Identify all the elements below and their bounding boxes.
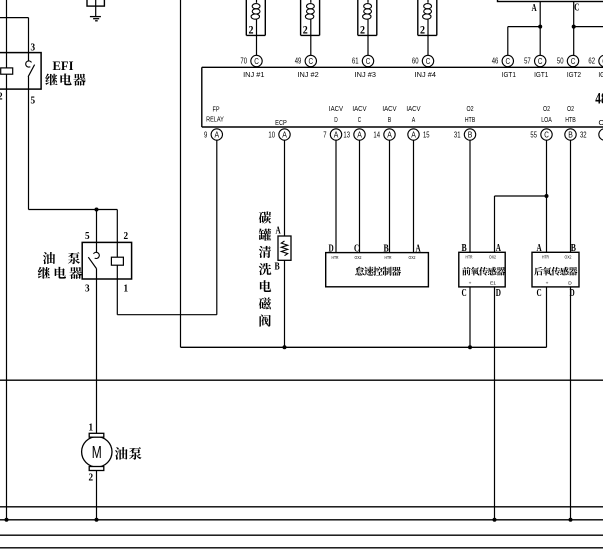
label 怠速控制器 bbox=[355, 267, 401, 276]
wire - purge solenoid B to rail bbox=[284, 260, 286, 347]
terminal C label (front O2) bbox=[462, 288, 467, 299]
svg-text:FP: FP bbox=[212, 105, 219, 114]
wire - to ground bbox=[95, 0, 97, 16]
wire - FP relay pin 5 drop bbox=[96, 210, 98, 243]
svg-text:55: 55 bbox=[530, 130, 537, 140]
svg-text:D: D bbox=[568, 280, 572, 286]
junction - IGT1 branch bbox=[538, 25, 542, 29]
svg-text:1: 1 bbox=[124, 283, 129, 295]
FP relay switch contact bbox=[88, 242, 99, 279]
svg-text:57: 57 bbox=[524, 56, 531, 66]
svg-text:2: 2 bbox=[249, 25, 254, 37]
tiny bottom names (front O2) bbox=[469, 280, 497, 286]
wire - vertical rail x180 bbox=[180, 0, 182, 347]
svg-text:9: 9 bbox=[204, 130, 207, 140]
terminal D label (front O2) bbox=[496, 288, 501, 299]
wire - ECU pin 9 drop bbox=[216, 140, 218, 315]
svg-text:C: C bbox=[254, 57, 259, 66]
svg-text:A: A bbox=[276, 226, 282, 237]
svg-text:IGT2: IGT2 bbox=[598, 70, 603, 79]
ignition coil box (cut at top right) bbox=[498, 0, 603, 2]
svg-text:B: B bbox=[275, 262, 280, 273]
svg-text:E1: E1 bbox=[490, 280, 496, 286]
svg-text:5: 5 bbox=[85, 230, 90, 242]
ECU pin 49 INJ #2 bbox=[295, 55, 317, 66]
label 4 (wire number, cut at edge) bbox=[595, 90, 603, 107]
svg-text:IACV: IACV bbox=[329, 104, 343, 113]
svg-text:70: 70 bbox=[240, 56, 247, 66]
wire - front O2 C to rail bbox=[469, 287, 471, 347]
label 油泵 (FP relay line1) bbox=[43, 252, 80, 264]
svg-text:2: 2 bbox=[0, 91, 3, 103]
junction - O2 LOA branch bbox=[545, 194, 549, 198]
front O2 sensor box bbox=[459, 252, 505, 287]
wire - FP relay pin 1 down bbox=[116, 279, 118, 315]
svg-text:B: B bbox=[571, 243, 576, 254]
label FP RELAY bbox=[206, 105, 224, 124]
svg-text:INJ #4: INJ #4 bbox=[415, 70, 436, 79]
svg-text:IACV: IACV bbox=[352, 104, 366, 113]
fuel pump motor M1 circle bbox=[82, 437, 112, 467]
label INJ #1 bbox=[243, 70, 264, 79]
wire - injector 3 to ECU pin bbox=[367, 19, 369, 55]
EFI relay K1 box bbox=[0, 53, 41, 90]
svg-text:+: + bbox=[469, 281, 472, 286]
svg-text:INJ #1: INJ #1 bbox=[243, 70, 264, 79]
svg-text:32: 32 bbox=[580, 130, 587, 140]
motor pin 2 label bbox=[89, 472, 94, 484]
wire - branch to front O2 A bbox=[495, 196, 547, 252]
junction - feed to ground bus bbox=[5, 518, 9, 522]
label O2 LOA bbox=[541, 104, 552, 124]
terminal B label (rear O2) bbox=[571, 243, 576, 254]
svg-text:48: 48 bbox=[595, 90, 603, 107]
svg-text:IGT1: IGT1 bbox=[534, 70, 548, 79]
svg-text:3: 3 bbox=[85, 283, 90, 295]
svg-text:A: A bbox=[532, 3, 538, 14]
svg-text:HTR: HTR bbox=[466, 255, 473, 261]
svg-text:31: 31 bbox=[454, 130, 461, 140]
svg-text:7: 7 bbox=[323, 130, 326, 140]
svg-text:15: 15 bbox=[423, 130, 430, 140]
label IGT1 bbox=[534, 70, 548, 79]
wire - EFI relay pin 3 drop bbox=[28, 18, 30, 53]
junction - motor on bus bbox=[95, 518, 99, 522]
svg-text:M: M bbox=[92, 442, 102, 462]
svg-text:D: D bbox=[329, 243, 334, 254]
ECU pin at right edge (cut) bbox=[599, 129, 603, 140]
label A (ignition coil terminal) bbox=[532, 3, 538, 14]
svg-text:A: A bbox=[357, 130, 362, 139]
svg-text:EFI: EFI bbox=[53, 59, 74, 73]
svg-text:B: B bbox=[388, 115, 392, 124]
label M bbox=[92, 442, 102, 462]
svg-text:C: C bbox=[538, 57, 543, 66]
injector 1 box (cut at top) bbox=[246, 0, 265, 35]
wire - IGT1 pin 46 drop bbox=[507, 27, 509, 56]
svg-text:B: B bbox=[462, 243, 467, 254]
svg-text:ECP: ECP bbox=[275, 118, 287, 127]
svg-text:RELAY: RELAY bbox=[206, 115, 224, 124]
svg-text:HTB: HTB bbox=[465, 115, 476, 124]
terminal D label (idle controller) bbox=[329, 243, 334, 254]
svg-text:IGT2: IGT2 bbox=[567, 70, 581, 79]
wire - pin 31 to front O2 B bbox=[469, 140, 471, 252]
svg-text:HTR: HTR bbox=[385, 255, 392, 261]
ECU box left edge bbox=[201, 67, 203, 127]
bus line 3 (ground) bbox=[0, 519, 603, 521]
svg-text:A: A bbox=[387, 130, 392, 139]
svg-text:A: A bbox=[334, 130, 339, 139]
label INJ #2 bbox=[297, 70, 318, 79]
svg-text:A: A bbox=[282, 130, 287, 139]
svg-text:62: 62 bbox=[588, 56, 595, 66]
injector 4 pin 2 label bbox=[420, 25, 425, 37]
svg-text:IGT1: IGT1 bbox=[502, 70, 516, 79]
tiny terminal names (rear O2) bbox=[542, 255, 572, 261]
svg-text:C: C bbox=[358, 115, 362, 124]
svg-text:+: + bbox=[546, 281, 549, 286]
terminal D label (rear O2) bbox=[570, 288, 575, 299]
wire - FP relay coil stubs bbox=[116, 242, 118, 279]
svg-text:IACV: IACV bbox=[406, 104, 420, 113]
injector 1 coil bbox=[251, 0, 260, 19]
svg-text:INJ #3: INJ #3 bbox=[355, 70, 376, 79]
label INJ #3 bbox=[355, 70, 376, 79]
svg-text:60: 60 bbox=[412, 56, 419, 66]
label IACV D bbox=[329, 104, 343, 124]
wire - IGT2 C drop bbox=[573, 2, 575, 56]
pin 5 label of EFI relay bbox=[31, 95, 36, 107]
ECU box bottom edge bbox=[202, 126, 603, 128]
svg-text:C: C bbox=[426, 57, 431, 66]
ECU pin 62 IGT2 bbox=[588, 55, 603, 66]
injector 3 coil bbox=[363, 0, 372, 19]
terminal A label (purge solenoid) bbox=[276, 226, 282, 237]
wire - motor to ground bus bbox=[96, 471, 98, 520]
svg-text:49: 49 bbox=[295, 56, 302, 66]
ECU pin 60 INJ #4 bbox=[412, 55, 434, 66]
svg-text:IACV: IACV bbox=[382, 104, 396, 113]
ECU pin 61 INJ #3 bbox=[352, 55, 374, 66]
svg-text:B: B bbox=[384, 243, 389, 254]
label IGT2 bbox=[598, 70, 603, 79]
wire - IGT1 branch horizontal bbox=[508, 26, 540, 28]
svg-text:10: 10 bbox=[268, 130, 275, 140]
label IACV C bbox=[352, 104, 366, 124]
svg-text:O2: O2 bbox=[543, 104, 550, 113]
label 油泵 (fuel pump) bbox=[115, 447, 142, 460]
pin 2 label of FP relay bbox=[124, 230, 129, 242]
ECU pin 31 O2 HTB bbox=[454, 129, 476, 140]
wire - injector 4 to ECU pin bbox=[427, 19, 429, 55]
ECU pin 13 IACV C bbox=[343, 129, 365, 140]
svg-text:2: 2 bbox=[360, 25, 365, 37]
svg-text:C: C bbox=[537, 288, 542, 299]
junction - front O2 C on rail bbox=[468, 345, 472, 349]
junction - purge solenoid on rail bbox=[283, 345, 287, 349]
terminal B label (front O2) bbox=[462, 243, 467, 254]
motor bottom terminal bbox=[89, 467, 104, 471]
ECU box top edge bbox=[202, 66, 603, 68]
svg-text:46: 46 bbox=[492, 56, 499, 66]
ECU pin 9 FP RELAY bbox=[204, 129, 223, 140]
EFI relay switch contact bbox=[26, 53, 35, 90]
wire - horizontal link to ECU pin 9 bbox=[117, 314, 217, 316]
svg-text:C: C bbox=[506, 57, 511, 66]
wire - FP relay pin 2 drop bbox=[116, 210, 118, 243]
wire - rear O2 C to rail end bbox=[546, 287, 548, 347]
purge solenooid coil zigzag bbox=[281, 241, 287, 256]
bus line 2 bbox=[0, 506, 603, 508]
wire - FP relay pin 3 down to motor bbox=[96, 279, 98, 433]
pin 3 label of FP relay bbox=[85, 283, 90, 295]
wire - horizontal rail y347 bbox=[181, 346, 547, 348]
terminal A label (rear O2) bbox=[537, 243, 543, 254]
label C (ignition coil terminal) bbox=[574, 3, 579, 14]
label INJ #4 bbox=[415, 70, 436, 79]
svg-text:1: 1 bbox=[89, 422, 94, 434]
wire - IGT2 branch horizontal bbox=[574, 26, 603, 28]
svg-text:O2: O2 bbox=[466, 104, 473, 113]
pin 5 label of FP relay bbox=[85, 230, 90, 242]
wire - horizontal to fuel pump relay bbox=[29, 209, 118, 211]
junction - rear O2 D on bus bbox=[569, 518, 573, 522]
label IGT1 bbox=[502, 70, 516, 79]
svg-text:C: C bbox=[571, 57, 576, 66]
svg-text:OX2: OX2 bbox=[489, 255, 496, 261]
rear O2 sensor box bbox=[532, 252, 579, 287]
injector 3 box (cut at top) bbox=[358, 0, 377, 35]
injector 4 coil bbox=[423, 0, 432, 19]
svg-text:C: C bbox=[366, 57, 371, 66]
svg-text:OX2: OX2 bbox=[409, 255, 416, 261]
wire - top-left horizontal to EFI relay pin 3 bbox=[0, 17, 29, 19]
junction - front O2 D on bus bbox=[493, 518, 497, 522]
wire - IGT1 A drop bbox=[539, 2, 541, 56]
svg-text:C: C bbox=[354, 243, 359, 254]
purge solenoid body bbox=[278, 236, 291, 260]
label 继电器 (EFI relay) bbox=[45, 73, 85, 85]
svg-text:14: 14 bbox=[373, 130, 380, 140]
fuel pump relay box bbox=[82, 242, 131, 279]
svg-text:O: O bbox=[599, 118, 603, 127]
svg-text:HTB: HTB bbox=[565, 115, 576, 124]
svg-text:13: 13 bbox=[343, 130, 350, 140]
label IACV A bbox=[406, 104, 420, 124]
ECU pin 70 INJ #1 bbox=[240, 55, 262, 66]
svg-text:2: 2 bbox=[420, 25, 425, 37]
svg-text:5: 5 bbox=[31, 95, 36, 107]
terminal C label (idle controller) bbox=[354, 243, 359, 254]
wire - ECU pin 10 to purge solenoid bbox=[284, 140, 286, 236]
svg-text:3: 3 bbox=[31, 42, 36, 54]
svg-text:A: A bbox=[412, 115, 416, 124]
injector 2 coil bbox=[305, 0, 314, 19]
label 前氧传感器 bbox=[462, 267, 505, 276]
terminal B label (purge solenoid) bbox=[275, 262, 280, 273]
wire - pin 55 down bbox=[546, 140, 548, 252]
tiny terminal names (front O2) bbox=[466, 255, 497, 261]
ECU pin 32 O2 HTB bbox=[565, 129, 587, 140]
wire - rear O2 D to bus bbox=[570, 287, 572, 520]
ECU pin 7 IACV D bbox=[323, 129, 341, 140]
wire - battery feed vertical at left bbox=[6, 0, 8, 520]
label O (cut at edge) bbox=[599, 118, 603, 127]
svg-text:D: D bbox=[334, 115, 338, 124]
EFI relay coil bbox=[1, 68, 13, 74]
svg-text:2: 2 bbox=[303, 25, 308, 37]
svg-text:INJ #2: INJ #2 bbox=[297, 70, 318, 79]
svg-text:C: C bbox=[309, 57, 314, 66]
svg-text:HTR: HTR bbox=[332, 255, 339, 261]
pin 1 label of FP relay bbox=[124, 283, 129, 295]
label O2 HTB (rear) bbox=[565, 104, 576, 124]
svg-text:D: D bbox=[496, 288, 501, 299]
svg-text:C: C bbox=[544, 130, 549, 139]
wire - injector 1 to ECU pin bbox=[256, 19, 258, 55]
svg-text:O2: O2 bbox=[567, 104, 574, 113]
svg-text:OX2: OX2 bbox=[355, 255, 362, 261]
svg-text:HTR: HTR bbox=[542, 255, 549, 261]
ECU pin 50 IGT2 bbox=[557, 55, 579, 66]
terminal A label (front O2) bbox=[496, 243, 502, 254]
injector 1 pin 2 label bbox=[249, 25, 254, 37]
motor pin 1 label bbox=[89, 422, 94, 434]
label ECP bbox=[275, 118, 287, 127]
svg-text:C: C bbox=[574, 3, 579, 14]
pin 2 label of EFI relay coil (cut at edge) bbox=[0, 91, 3, 103]
wire - pin 7 to idle controller D bbox=[335, 140, 337, 253]
ECU pin 46 IGT1 bbox=[492, 55, 514, 66]
tiny bottom names (rear O2) bbox=[546, 280, 573, 286]
svg-text:A: A bbox=[416, 243, 422, 254]
ECU pin 14 IACV B bbox=[373, 129, 395, 140]
motor top terminal bbox=[89, 433, 104, 437]
wire - front O2 D to bus bbox=[494, 287, 496, 520]
ground symbol bbox=[90, 17, 101, 21]
label EFI bbox=[53, 59, 74, 73]
component box (cut at top) above ground bbox=[87, 0, 104, 6]
terminal A label (idle controller) bbox=[416, 243, 422, 254]
ECU pin 57 IGT1 bbox=[524, 55, 546, 66]
svg-text:2: 2 bbox=[89, 472, 94, 484]
label IGT2 bbox=[567, 70, 581, 79]
injector 2 pin 2 label bbox=[303, 25, 308, 37]
injector 2 box (cut at top) bbox=[301, 0, 320, 35]
idle controller box bbox=[326, 253, 429, 287]
wire - pin 15 to idle controller A bbox=[413, 140, 415, 253]
svg-text:A: A bbox=[411, 130, 416, 139]
ECU pin 55 O2 LOA bbox=[530, 129, 552, 140]
label 碳罐清洗电磁阀 (vertical) bbox=[259, 211, 272, 326]
ECU pin 10 ECP bbox=[268, 129, 290, 140]
svg-text:61: 61 bbox=[352, 56, 359, 66]
injector 3 pin 2 label bbox=[360, 25, 365, 37]
wire - pin 14 to idle controller B bbox=[389, 140, 391, 253]
bus line 5 bbox=[0, 547, 603, 549]
svg-text:A: A bbox=[215, 130, 220, 139]
svg-text:50: 50 bbox=[557, 56, 564, 66]
pin 3 label of EFI relay bbox=[31, 42, 36, 54]
label 继电器 (FP relay line2) bbox=[38, 267, 82, 279]
junction - branch to FP relay pin 5 bbox=[95, 208, 99, 212]
label IACV B bbox=[382, 104, 396, 124]
terminal B label (idle controller) bbox=[384, 243, 389, 254]
svg-text:LOA: LOA bbox=[541, 115, 552, 124]
junction - IGT2 branch bbox=[572, 25, 576, 29]
wire - EFI relay pin 5 down bbox=[28, 89, 30, 209]
svg-text:B: B bbox=[568, 130, 573, 139]
svg-text:A: A bbox=[537, 243, 543, 254]
label 后氧传感器 bbox=[534, 267, 577, 276]
wire - pin 32 to rear O2 B bbox=[570, 140, 572, 252]
ECU pin 15 IACV A bbox=[408, 129, 430, 140]
terminal C label (rear O2) bbox=[537, 288, 542, 299]
bus line 1 bbox=[0, 379, 603, 381]
label O2 HTB (front) bbox=[465, 104, 476, 124]
bus line 4 bbox=[0, 534, 603, 536]
tiny terminal names (idle controller) bbox=[332, 255, 416, 261]
injector 4 box (cut at top) bbox=[418, 0, 437, 35]
wire - pin 13 to idle controller C bbox=[359, 140, 361, 253]
svg-text:C: C bbox=[462, 288, 467, 299]
wire - injector 2 to ECU pin bbox=[310, 19, 312, 55]
FP relay coil bbox=[111, 257, 123, 265]
svg-text:2: 2 bbox=[124, 230, 129, 242]
svg-text:B: B bbox=[468, 130, 473, 139]
svg-text:OX2: OX2 bbox=[565, 255, 572, 261]
svg-text:A: A bbox=[496, 243, 502, 254]
